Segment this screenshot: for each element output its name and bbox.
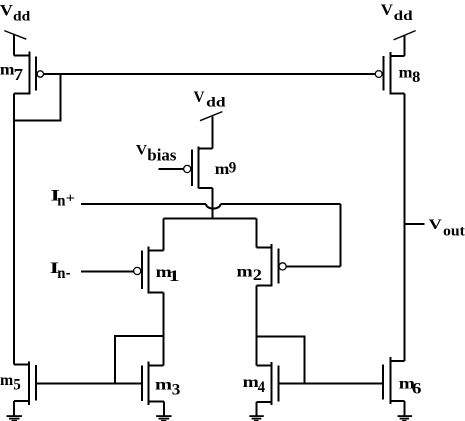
ground (m4) [249, 416, 263, 421]
transistor m2 [237, 244, 287, 286]
svg-text:m: m [399, 65, 413, 82]
svg-text:bias: bias [147, 145, 176, 164]
wire m2 drain down to m4 [255, 286, 257, 366]
wire m3 source to ground [163, 402, 165, 416]
svg-text:n: n [57, 265, 65, 282]
node In- [50, 260, 134, 282]
svg-text:V: V [194, 89, 205, 106]
svg-text:4: 4 [258, 379, 265, 396]
svg-text:-: - [66, 262, 71, 282]
svg-text:V: V [381, 2, 394, 19]
svg-text:V: V [429, 217, 442, 233]
svg-text:3: 3 [172, 381, 181, 398]
svg-text:dd: dd [13, 9, 30, 24]
wire m7 drain to m5 drain [13, 94, 15, 365]
svg-text:7: 7 [14, 65, 24, 84]
wire m9 drain down to tail [212, 188, 214, 219]
node Vbias [136, 143, 184, 169]
svg-text:dd: dd [206, 96, 226, 111]
svg-text:m: m [0, 372, 14, 389]
transistor m1 [134, 246, 180, 293]
svg-text:5: 5 [13, 376, 20, 393]
ground (m3) [156, 416, 172, 421]
transistor m3 [142, 362, 181, 405]
power Vdd (m9) [194, 89, 226, 149]
transistor m6 [383, 357, 422, 404]
transistor m5 [0, 361, 36, 405]
wire m5 source to ground [13, 401, 15, 416]
svg-text:n: n [57, 193, 65, 210]
power Vdd (m7) [0, 3, 30, 56]
ground (m6) [398, 416, 413, 421]
wire m3 diode tie (drain to gate line) [115, 336, 164, 383]
wire tail node (m1,m2 sources to m9 drain) [164, 219, 257, 251]
wire m4 diode tie (drain to gate line) [256, 336, 304, 383]
transistor m8 [375, 52, 420, 94]
power Vdd (m8) [381, 2, 416, 56]
svg-text:V: V [0, 3, 13, 20]
wire m1 drain down to m3 [163, 292, 165, 365]
wire In+ to m2 gate (with hop under m9 drain) [81, 204, 341, 266]
svg-text:9: 9 [229, 159, 237, 176]
wire gate line m5-m3 [36, 382, 142, 384]
transistor m7 [0, 52, 44, 95]
wire m7 gate to m8 gate [44, 73, 376, 75]
svg-text:dd: dd [394, 9, 413, 24]
wire m6 source to ground [403, 401, 405, 416]
wire m7 gate-drain tie [14, 74, 60, 120]
wire m4 source to ground [255, 402, 257, 416]
ground (m5) [7, 416, 23, 421]
svg-text:2: 2 [253, 267, 262, 284]
wire gate line m4-m6 [278, 382, 383, 384]
transistor m4 [243, 362, 279, 405]
node Vout [404, 217, 465, 240]
node In+ [51, 188, 76, 210]
wire m8 drain to m6 (Vout net) [403, 94, 405, 361]
svg-text:out: out [443, 223, 465, 239]
svg-text:8: 8 [412, 69, 420, 86]
svg-text:m: m [155, 377, 173, 394]
transistor m9 [184, 147, 237, 189]
svg-text:m: m [237, 264, 254, 281]
svg-text:V: V [136, 143, 147, 159]
svg-text:+: + [66, 191, 75, 206]
svg-text:6: 6 [412, 381, 422, 398]
svg-text:1: 1 [169, 268, 180, 285]
